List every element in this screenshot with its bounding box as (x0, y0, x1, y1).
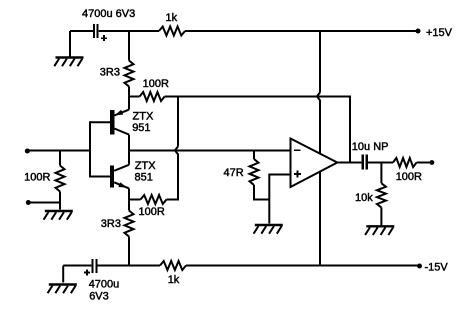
svg-text:3R3: 3R3 (100, 66, 120, 78)
wire C3 to R8 (368, 162, 393, 164)
wire node E1 to R3 (128, 96, 140, 98)
svg-text:4700u 6V3: 4700u 6V3 (82, 8, 135, 20)
wire Q1 base lead (90, 121, 110, 123)
resistor R9 10k (377, 183, 386, 207)
wire R7 bottom to bottom rail (128, 237, 130, 267)
svg-text:ZTX: ZTX (135, 160, 156, 172)
resistor R4 100R (input) top lead (59, 151, 61, 166)
svg-text:47R: 47R (224, 167, 244, 179)
wire C1 left leg to ground (69, 31, 71, 57)
Q1 collector diagonal (114, 129, 129, 135)
wire C3 junction down to R9 10k (380, 163, 382, 184)
wire inverting input from collectors to op-amp (129, 150, 290, 152)
resistor R4 100R (input) (56, 166, 65, 192)
Q1 emitter diagonal (114, 110, 129, 116)
svg-text:4700u: 4700u (89, 279, 120, 291)
svg-text:10k: 10k (355, 192, 373, 204)
svg-text:951: 951 (132, 122, 150, 134)
wire feedback R3 to output node (crosses V+ line) (165, 97, 350, 163)
Q2 collector diagonal (114, 165, 129, 171)
wire Q2 base lead (90, 176, 110, 178)
node +15V terminal dot (416, 29, 421, 34)
svg-text:1k: 1k (166, 12, 178, 24)
wire top rail C1 to R 1k (99, 30, 159, 32)
wire bottom rail left of C2 (63, 265, 91, 267)
resistor R8 100R (output) (393, 158, 417, 167)
ground G4 under 10k (365, 226, 394, 235)
op-amp U1 minus sign (294, 149, 300, 151)
wire node E2 down to R7 3R3 (128, 200, 130, 211)
ground G1 top left (54, 58, 83, 67)
wire R8 to output terminal (417, 162, 430, 164)
svg-text:10u NP: 10u NP (352, 141, 389, 153)
Q1 emitter arrow (PNP, points to base) (115, 110, 123, 115)
capacitor C2 4700u 6V3 (bottom) (84, 259, 98, 276)
node output terminal dot (430, 160, 435, 165)
resistor R5 47R (250, 159, 259, 185)
wire Q1 emitter up to node E1 (128, 97, 130, 110)
svg-text:100R: 100R (24, 172, 50, 184)
svg-text:100R: 100R (396, 171, 422, 183)
op-amp U1 plus sign (294, 171, 301, 178)
wire C2 left leg to ground (62, 266, 64, 283)
svg-text:ZTX: ZTX (133, 111, 154, 123)
resistor R7 3R3 (lower) (125, 211, 134, 237)
wire top rail left of C1 (70, 30, 93, 32)
resistor R2 3R3 (top) (125, 61, 134, 87)
resistor R3 100R (upper) (140, 92, 165, 101)
wire rail junction down to R2 3R3 (128, 30, 130, 61)
wire Q2 emitter down to node E2 (128, 188, 130, 200)
ground G3 op-amp (254, 225, 283, 234)
wire bottom rail C2 to R10 1k (98, 265, 161, 267)
wire hop V+ over feedback wire (317, 93, 320, 154)
wire node E2 to R6 (129, 199, 141, 201)
svg-text:851: 851 (135, 172, 153, 184)
node input ground terminal dot (26, 200, 31, 205)
svg-text:1k: 1k (168, 274, 180, 286)
capacitor C3 10u NP (361, 155, 368, 170)
wire op-amp output (337, 162, 361, 164)
wire collector link Q1 to Q2 (128, 135, 130, 165)
svg-text:-15V: -15V (425, 262, 449, 274)
resistor R6 100R (lower) (141, 195, 167, 204)
op-amp U1 triangle (291, 139, 338, 188)
Q2 emitter diagonal (114, 182, 129, 188)
Q2 emitter arrow (NPN, points out) (118, 182, 126, 187)
wire base link Q1 to Q2 (89, 121, 91, 177)
node input terminal dot (25, 149, 30, 154)
svg-text:6V3: 6V3 (89, 291, 109, 303)
svg-text:100R: 100R (139, 206, 165, 218)
wire bottom rail to -15V terminal (186, 265, 418, 267)
svg-text:100R: 100R (143, 78, 169, 90)
resistor R10 1k (bottom) (160, 261, 186, 270)
wire input to base link (28, 150, 91, 152)
wire op-amp V- supply to bottom rail (319, 172, 321, 267)
ground G5 bottom left (48, 285, 77, 294)
wire link R3 right end down to R6 (177, 97, 179, 147)
transistor Q2 ZTX851 base bar (110, 166, 114, 188)
svg-text:3R3: 3R3 (101, 218, 121, 230)
wire hop link line over inverting wire (175, 147, 178, 200)
wire input ground terminal to R4 bottom (29, 202, 60, 204)
resistor R1 1k (top) (159, 27, 185, 36)
transistor Q1 ZTX951 base bar (110, 110, 114, 134)
wire R9 bottom to ground (380, 208, 382, 226)
wire R6 right lead to link line (167, 199, 180, 201)
wire R5 bottom to ground link (254, 185, 269, 200)
ground G2 input (44, 211, 73, 220)
wire R2 bottom to node E1 (128, 87, 130, 97)
resistor R5 47R top lead (253, 151, 255, 160)
svg-text:+15V: +15V (426, 27, 453, 39)
wire top rail to +15V terminal (185, 30, 417, 32)
wire R4 bottom to ground (59, 192, 61, 210)
capacitor C1 4700u 6V3 (93, 24, 107, 41)
wire non-inverting input to ground (269, 175, 289, 224)
node -15V terminal dot (417, 264, 422, 269)
wire op-amp V+ supply from top rail (319, 30, 321, 93)
